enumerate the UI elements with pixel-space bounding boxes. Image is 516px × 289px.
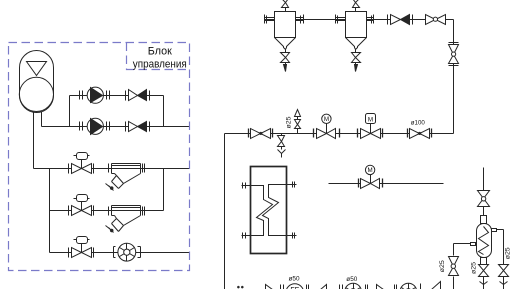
- svg-text:M: M: [324, 116, 329, 123]
- svg-text:M: M: [368, 167, 373, 174]
- svg-text:ø50: ø50: [289, 275, 300, 282]
- svg-text:ø50: ø50: [346, 276, 357, 283]
- svg-text:ø25: ø25: [471, 262, 478, 274]
- svg-text:ø25: ø25: [504, 247, 511, 259]
- svg-text:ø25: ø25: [286, 116, 293, 128]
- svg-text:ø100: ø100: [411, 119, 425, 126]
- svg-text:ø25: ø25: [439, 260, 446, 272]
- svg-text:Блок: Блок: [148, 46, 172, 58]
- svg-text:M: M: [368, 116, 373, 123]
- svg-text:управления: управления: [133, 59, 187, 71]
